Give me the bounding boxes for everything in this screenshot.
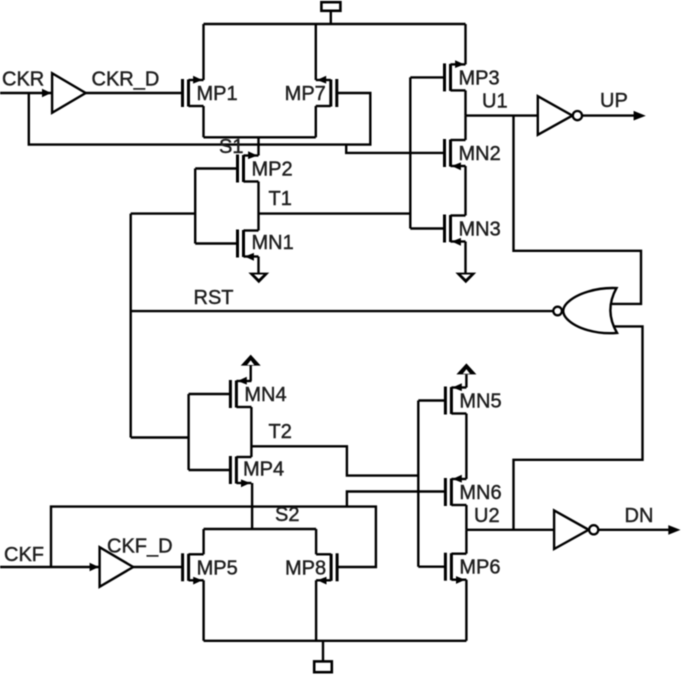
svg-text:MP4: MP4 [243, 459, 284, 481]
svg-text:MP1: MP1 [197, 83, 238, 105]
svg-text:CKF_D: CKF_D [107, 536, 173, 558]
svg-text:MP2: MP2 [252, 159, 293, 181]
svg-text:MP6: MP6 [459, 557, 500, 579]
svg-text:S2: S2 [275, 504, 299, 526]
svg-text:MP7: MP7 [285, 83, 326, 105]
svg-text:MN2: MN2 [459, 143, 501, 165]
svg-text:T2: T2 [269, 421, 292, 443]
svg-text:CKR: CKR [2, 69, 44, 91]
svg-text:RST: RST [194, 287, 234, 309]
svg-text:MP8: MP8 [285, 557, 326, 579]
svg-text:MP5: MP5 [197, 557, 238, 579]
svg-text:CKR_D: CKR_D [92, 69, 160, 91]
svg-text:U1: U1 [482, 91, 508, 113]
svg-text:MN5: MN5 [459, 391, 501, 413]
svg-text:S1: S1 [219, 136, 243, 158]
svg-text:MN4: MN4 [244, 384, 286, 406]
svg-text:MN6: MN6 [459, 482, 501, 504]
svg-text:CKF: CKF [4, 544, 44, 566]
svg-text:MN1: MN1 [252, 232, 294, 254]
svg-text:MN3: MN3 [459, 219, 501, 241]
svg-text:U2: U2 [474, 505, 500, 527]
svg-text:T1: T1 [269, 188, 292, 210]
svg-text:DN: DN [625, 505, 654, 527]
svg-text:MP3: MP3 [459, 67, 500, 89]
svg-text:UP: UP [600, 90, 628, 112]
